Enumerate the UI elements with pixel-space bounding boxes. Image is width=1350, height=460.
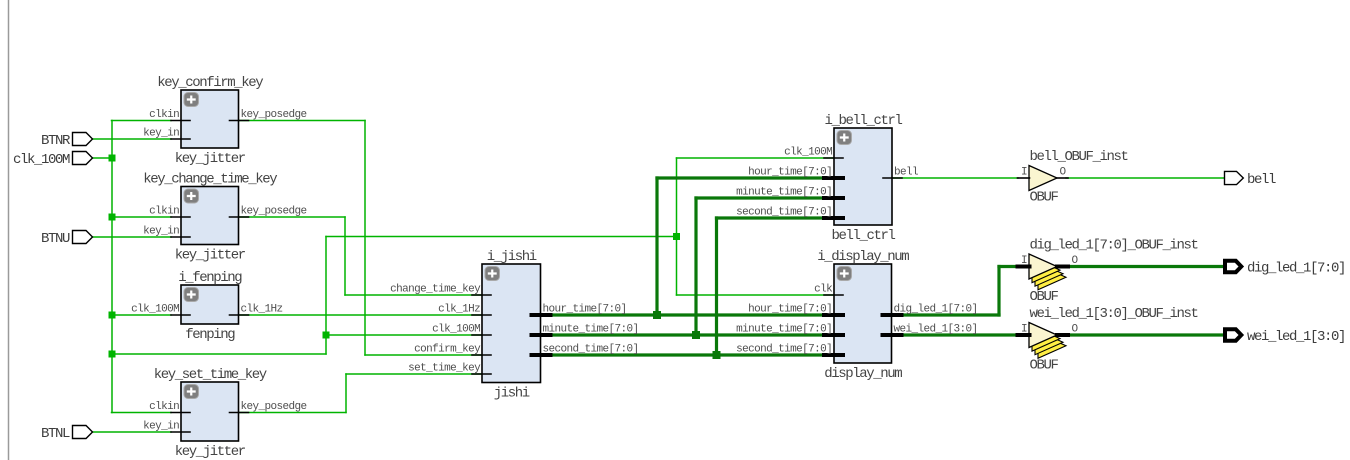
svg-text:key_jitter: key_jitter [175,444,246,460]
i_display_num input pin second_time[7:0] [824,353,843,357]
svg-text:key_posedge: key_posedge [241,109,307,121]
svg-text:dig_led_1[7:0]: dig_led_1[7:0] [1247,261,1345,277]
net key_confirm to jishi confirm_key [365,354,482,356]
svg-text:display_num: display_num [824,366,902,382]
key_confirm_key input pin key_in [171,138,190,140]
svg-text:second_time[7:0]: second_time[7:0] [736,344,832,356]
wire BTNR to key_confirm_key key_in [93,138,171,140]
svg-text:key_in: key_in [143,421,179,433]
output port wei_led_1[3:0] [1225,329,1241,340]
bus wei_led_1 OBUF output to port [1068,333,1224,336]
i_bell_ctrl input pin second_time[7:0] [824,216,843,220]
svg-text:wei_led_1[3:0]: wei_led_1[3:0] [894,324,978,336]
bell_OBUF_inst input stub [1018,177,1030,179]
svg-text:second_time[7:0]: second_time[7:0] [736,207,832,219]
svg-text:hour_time[7:0]: hour_time[7:0] [543,304,627,316]
input port clk_100M [73,152,93,165]
svg-text:key_in: key_in [143,128,179,140]
svg-text:clkin: clkin [149,109,179,121]
svg-text:dig_led_1[7:0]: dig_led_1[7:0] [894,304,978,316]
dig_led_1[7:0]_OBUF_inst input stub [1018,265,1030,269]
output port bell [1225,171,1244,184]
net key_confirm key_posedge vertical x365 [364,121,366,356]
module key_confirm_key (key_jitter) block body [181,90,239,148]
bus second_time riser x716.5 [715,218,718,355]
key_change_time_key input pin clkin [171,216,190,218]
svg-text:hour_time[7:0]: hour_time[7:0] [748,304,832,316]
key_change_time_key input pin key_in [171,236,190,238]
net bell_ctrl bell to OBUF [892,177,1018,179]
i_fenping input pin clk_100M [171,314,190,316]
svg-text:hour_time[7:0]: hour_time[7:0] [748,167,832,179]
svg-text:key_jitter: key_jitter [175,151,246,167]
svg-text:BTNR: BTNR [41,133,71,149]
wire BTNU to key_change_time_key key_in [93,236,171,238]
svg-text:i_bell_ctrl: i_bell_ctrl [824,113,902,129]
svg-text:O: O [1072,324,1079,336]
svg-text:clk_100M: clk_100M [13,152,70,168]
bus wei_led_1 display to OBUF [892,333,1019,336]
svg-text:bell: bell [1247,172,1276,188]
i_jishi input pin confirm_key [472,354,491,356]
net key_set to jishi set_time_key [346,373,482,375]
wire clk_100M port to rail [93,157,112,159]
svg-text:clk: clk [814,284,833,296]
wire BTNL to key_set_time_key key_in [93,431,171,433]
module i_jishi (jishi) block body [482,264,541,383]
wire rail to key_confirm_key clkin [112,120,172,122]
svg-text:wei_led_1[3:0]_OBUF_inst: wei_led_1[3:0]_OBUF_inst [1030,306,1198,322]
svg-text:bell_ctrl: bell_ctrl [831,228,895,244]
key_set_time_key expand + button [184,385,199,399]
i_jishi input pin change_time_key [472,294,491,296]
svg-text:bell_OBUF_inst: bell_OBUF_inst [1030,149,1128,165]
svg-text:key_posedge: key_posedge [241,206,307,218]
junction clk_100M port at rail [109,155,116,162]
svg-text:set_time_key: set_time_key [408,363,481,375]
junction second_time bus x716.5 [713,351,721,359]
key_confirm_key output pin key_posedge [230,120,249,122]
net key_set key_posedge vertical x346 [345,374,347,413]
svg-text:i_fenping: i_fenping [178,270,242,286]
bell_OBUF_inst output stub [1057,177,1068,179]
svg-text:minute_time[7:0]: minute_time[7:0] [543,324,639,336]
i_display_num input pin clk [824,294,843,296]
junction minute_time bus x696 [692,331,700,339]
module i_bell_ctrl (bell_ctrl) block body [834,128,892,225]
svg-text:key_confirm_key: key_confirm_key [157,75,263,91]
svg-text:O: O [1072,255,1079,267]
junction x676.5 y236.5 [673,233,680,240]
svg-text:O: O [1060,167,1067,179]
svg-text:I: I [1021,324,1027,336]
svg-text:key_set_time_key: key_set_time_key [154,367,267,383]
svg-text:I: I [1021,167,1027,179]
svg-text:i_jishi: i_jishi [487,249,537,265]
net key_confirm key_posedge horizontal [239,120,366,122]
key_set_time_key input pin key_in [171,431,190,433]
junction rail to key_change clkin [109,214,116,221]
wei_led_1[3:0]_OBUF_inst output stub [1057,333,1068,337]
net key_change key_posedge horizontal [239,216,346,218]
dig_led_OBUF stacked buffer shadow 3 [1038,265,1066,290]
i_bell_ctrl input pin hour_time[7:0] [824,176,843,180]
wei_led_1[3:0]_OBUF_inst input stub [1018,333,1030,337]
svg-text:clkin: clkin [149,401,179,413]
i_display_num expand + button [837,267,852,281]
net bell OBUF output to port [1066,177,1224,179]
key_change_time_key expand + button [184,189,199,203]
wire junction x326 to jishi clk_100M [326,334,482,336]
junction rail branch y354 [109,351,116,358]
svg-text:key_change_time_key: key_change_time_key [143,172,277,188]
i_bell_ctrl input pin clk_100M [824,157,843,159]
i_jishi output pin second_time[7:0] [532,353,551,357]
dig_led_1[7:0]_OBUF_inst output stub [1057,265,1068,269]
net key_set key_posedge horizontal [239,412,347,414]
i_jishi output pin minute_time[7:0] [532,333,551,337]
net key_change key_posedge vertical x345 [344,217,346,295]
svg-text:clk_100M: clk_100M [131,304,179,316]
i_bell_ctrl output pin bell [883,177,902,179]
svg-text:clkin: clkin [149,206,179,218]
bus minute_time jishi to display_num [541,333,835,336]
svg-text:clk_1Hz: clk_1Hz [241,304,283,316]
dig_led_OBUF stacked buffer shadow 1 [1032,258,1060,283]
wire riser x676.5 down to display clk [676,237,678,296]
i_jishi output pin hour_time[7:0] [532,313,551,317]
svg-text:minute_time[7:0]: minute_time[7:0] [736,187,832,199]
svg-text:OBUF: OBUF [1030,289,1059,305]
bus second_time jishi to display_num [541,353,835,356]
OBUF bell_OBUF_inst triangle [1029,166,1057,191]
net key_change to jishi change_time_key [345,294,482,296]
bus minute_time to bell_ctrl [696,196,834,199]
junction x326 y335 [323,332,330,339]
bus dig_led_1 OBUF output to port [1068,265,1224,268]
svg-text:BTNL: BTNL [41,426,70,442]
junction hour_time bus x657 [653,311,661,319]
net fenping clk_1Hz to jishi clk_1Hz [239,314,483,316]
wire rail to key_change_time_key clkin [112,216,171,218]
svg-text:minute_time[7:0]: minute_time[7:0] [736,324,832,336]
wire riser x676.5 up to bell_ctrl clk_100M [676,158,678,237]
svg-text:fenping: fenping [185,327,235,343]
output port dig_led_1[7:0] [1225,261,1241,272]
svg-text:key_in: key_in [143,226,179,238]
i_fenping expand + button [184,288,199,302]
module key_change_time_key (key_jitter) block body [181,187,239,245]
bus second_time to bell_ctrl [717,216,835,219]
i_jishi input pin set_time_key [472,373,491,375]
wei_led_OBUF stacked buffer shadow 1 [1032,326,1060,351]
i_bell_ctrl input pin minute_time[7:0] [824,196,843,200]
i_display_num output pin wei_led_1[3:0] [883,333,902,337]
wire rail bottom to key_set_time_key clkin [112,412,172,414]
junction rail to fenping clk_100M [109,312,116,319]
bus hour_time riser x657 [655,178,658,315]
input port BTNL [73,426,93,439]
OBUF dig_led_1[7:0]_OBUF_inst triangle [1029,254,1057,279]
wire rail branch at y354 to jishi clk_100M riser [112,353,326,355]
module i_display_num (display_num) block body [834,264,892,363]
svg-text:clk_1Hz: clk_1Hz [438,304,480,316]
bus dig_led_1 to OBUF [999,265,1018,268]
svg-text:confirm_key: confirm_key [414,344,481,356]
svg-text:clk_100M: clk_100M [784,147,832,159]
key_set_time_key input pin clkin [171,412,190,414]
key_confirm_key expand + button [184,93,199,107]
bus hour_time jishi to display_num [541,313,835,316]
bus dig_led_1 riser x998 [997,267,1000,316]
svg-text:second_time[7:0]: second_time[7:0] [543,344,639,356]
svg-text:wei_led_1[3:0]: wei_led_1[3:0] [1247,329,1345,345]
svg-text:dig_led_1[7:0]_OBUF_inst: dig_led_1[7:0]_OBUF_inst [1030,238,1198,254]
svg-text:OBUF: OBUF [1030,358,1059,374]
key_confirm_key input pin clkin [171,120,190,122]
module i_fenping (fenping) block body [181,285,239,324]
wire to display_num clk [677,294,835,296]
svg-text:change_time_key: change_time_key [390,284,481,296]
wire to bell_ctrl clk_100M [677,157,835,159]
dig_led_OBUF stacked buffer shadow 2 [1035,261,1063,286]
i_jishi input pin clk_1Hz [472,314,491,316]
i_display_num input pin hour_time[7:0] [824,313,843,317]
bus minute_time riser x696 [694,198,697,335]
i_display_num output pin dig_led_1[7:0] [883,313,902,317]
i_display_num input pin minute_time[7:0] [824,333,843,337]
key_set_time_key output pin key_posedge [230,412,249,414]
i_jishi input pin clk_100M [472,334,491,336]
input port BTNR [73,133,93,146]
left panel divider line [8,0,10,460]
OBUF wei_led_1[3:0]_OBUF_inst triangle [1029,323,1057,348]
wei_led_OBUF stacked buffer shadow 2 [1035,330,1063,355]
wire riser x326 y354-y335 [325,335,327,355]
svg-text:i_display_num: i_display_num [817,249,909,265]
svg-text:bell: bell [894,167,918,179]
bus hour_time to bell_ctrl [657,176,834,179]
svg-text:OBUF: OBUF [1030,190,1059,206]
i_jishi expand + button [485,267,500,281]
svg-text:BTNU: BTNU [41,231,70,247]
module key_set_time_key (key_jitter) block body [181,382,239,441]
wire clk_100M horizontal run y236.5 [326,236,677,238]
svg-text:I: I [1021,255,1027,267]
svg-text:key_posedge: key_posedge [241,401,307,413]
svg-text:key_jitter: key_jitter [175,248,246,264]
bus dig_led_1 display to riser [892,313,1000,316]
i_bell_ctrl expand + button [837,131,852,145]
wire riser x326 y335-y236.5 [325,237,327,336]
i_fenping output pin clk_1Hz [230,314,249,316]
svg-text:clk_100M: clk_100M [432,324,480,336]
input port BTNU [73,231,93,244]
svg-text:jishi: jishi [494,386,530,402]
wire rail to fenping clk_100M [112,314,171,316]
key_change_time_key output pin key_posedge [230,216,249,218]
wire clk_100M vertical rail [111,121,113,413]
wei_led_OBUF stacked buffer shadow 3 [1038,333,1066,358]
